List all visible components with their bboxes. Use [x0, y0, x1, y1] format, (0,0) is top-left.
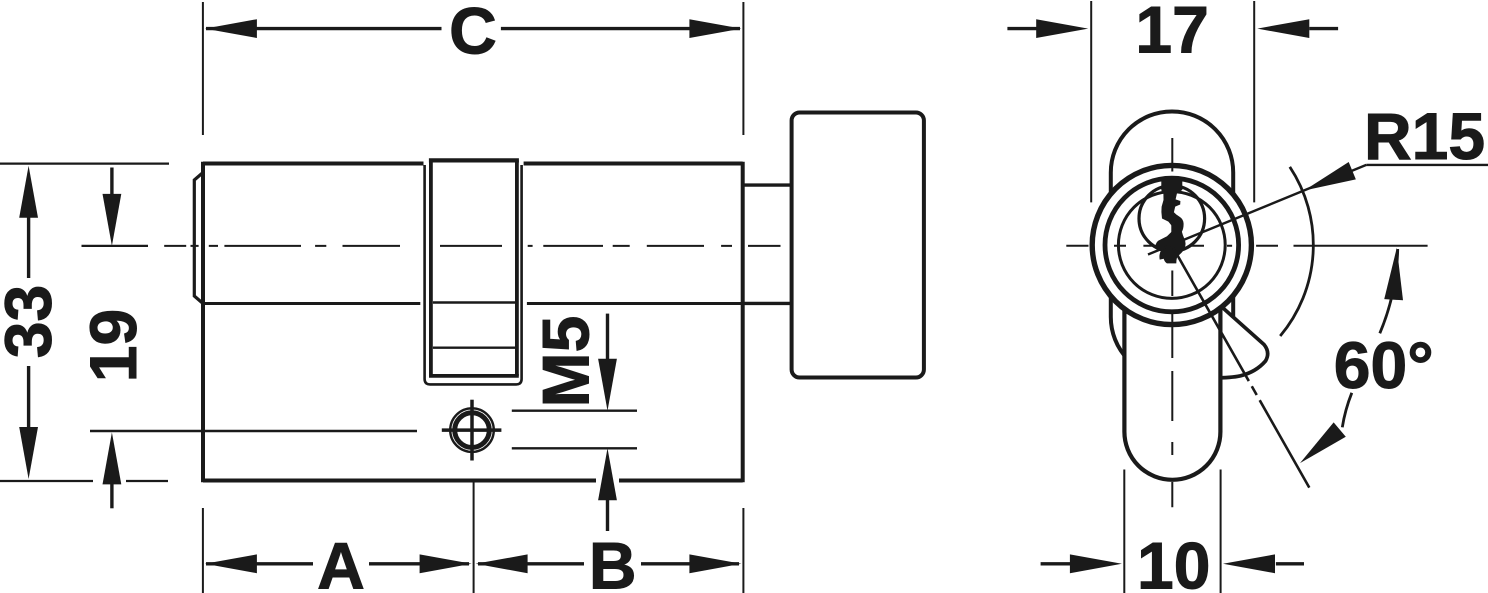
R15 arrow at arc: [1301, 162, 1356, 199]
thumbturn neck top line: [743, 183, 792, 186]
cam tab: [1214, 300, 1268, 378]
cam radial line at 60 deg: [1173, 248, 1309, 488]
svg-text:17: 17: [1135, 0, 1208, 67]
thumbturn knob silhouette (behind): [1111, 112, 1233, 379]
svg-text:R15: R15: [1364, 99, 1485, 173]
svg-text:10: 10: [1137, 528, 1210, 593]
cylinder plug face bump left: [194, 173, 203, 304]
cylinder body top edge: [203, 162, 424, 166]
dimension 33 lower arrow: [19, 427, 38, 479]
dimension M5 lower ref line: [512, 447, 637, 449]
60 deg arc lower segment: [1342, 393, 1352, 428]
dimension C arrow right: [689, 19, 741, 38]
dimension A/B shared extension line (screw axis): [473, 482, 475, 593]
dimension 17 right arrow: [1257, 19, 1309, 38]
housing face circle (d=17): [1092, 165, 1251, 324]
60 deg arc lower arrow: [1294, 422, 1346, 470]
extension line bottom left (33 lower ref): [0, 480, 93, 482]
clamp bridge cap top: [429, 158, 519, 162]
dimension B extension line right: [742, 508, 744, 593]
svg-text:B: B: [589, 529, 637, 593]
60 deg arc upper arrow: [1384, 247, 1406, 300]
dimension 10 extension line left: [1123, 470, 1125, 593]
svg-text:60°: 60°: [1334, 328, 1434, 402]
cylinder body bottom edge: [203, 479, 596, 483]
svg-text:C: C: [449, 0, 497, 68]
clamp bridge outer U: [425, 165, 522, 384]
dimension 19 ref line bottom (screw axis level): [90, 430, 417, 432]
right view horizontal center line: [1066, 245, 1427, 247]
dimension 10 right arrow: [1223, 554, 1275, 573]
dimension 17 extension line right: [1253, 1, 1255, 202]
dimension M5 upper ref line: [512, 410, 637, 412]
center line (dash-dot) of cylinder axis: [164, 245, 780, 247]
dimension A line: [206, 562, 313, 565]
svg-text:A: A: [317, 529, 365, 593]
dimension 19 upper arrow: [110, 168, 113, 196]
extension line top left (33 upper ref): [0, 163, 169, 165]
dimension C line right segment: [501, 27, 740, 30]
dimension C line left segment: [206, 27, 442, 30]
screw hole crosshair horizontal: [442, 428, 502, 432]
face chamfer circle: [1105, 178, 1239, 312]
dimension 19 ref line top (center level): [82, 245, 149, 247]
svg-text:19: 19: [76, 309, 150, 382]
60 deg arc upper segment: [1380, 249, 1398, 333]
dimension 10 extension line right: [1220, 470, 1222, 593]
dimension A extension line left: [202, 508, 204, 593]
dimension 17 extension line left: [1090, 1, 1092, 202]
dimension C extension line right: [742, 2, 744, 135]
dimension C arrow left: [205, 19, 257, 38]
plug circle: [1118, 192, 1225, 299]
fixing screw hole outer circle: [450, 408, 494, 452]
screw hole crosshair vertical: [470, 400, 474, 461]
cylinder body left edge: [201, 162, 205, 483]
fixing screw hole inner ring: [455, 413, 490, 448]
clamp bridge inner line at mid: [433, 301, 515, 303]
dimension B line: [478, 562, 584, 565]
cylinder mid line (round housing boundary): [203, 302, 420, 305]
clamp bridge inner bottom: [429, 374, 519, 378]
dimension 33 shaft: [27, 217, 30, 278]
dimension M5 upper arrow: [606, 314, 609, 360]
cylinder body right edge: [741, 162, 745, 483]
right view vertical center line: [1171, 138, 1173, 507]
dimension M5 lower arrow: [598, 448, 617, 500]
keyway guide circle: [1139, 186, 1205, 252]
clamp bridge inner left edge: [429, 160, 433, 376]
keyway profile (black): [1156, 177, 1186, 263]
thumbturn knob side view: [792, 113, 924, 378]
clamp bridge inner right edge: [515, 160, 519, 376]
dimension 33 upper arrow: [19, 166, 38, 218]
clamp bridge inner line lower: [433, 347, 515, 349]
dimension 10 left arrow: [1041, 562, 1070, 565]
dimension 17 left arrow: [1007, 27, 1037, 30]
thumbturn neck bottom line: [743, 302, 792, 305]
keyway housing body (10 mm wide): [1124, 295, 1220, 480]
svg-text:M5: M5: [529, 316, 603, 408]
R15 arc: [1280, 167, 1313, 336]
dimension C extension line left: [202, 2, 204, 135]
svg-text:33: 33: [0, 285, 65, 358]
R15 leader line: [1148, 165, 1366, 255]
dimension 19 lower arrow: [103, 432, 122, 484]
